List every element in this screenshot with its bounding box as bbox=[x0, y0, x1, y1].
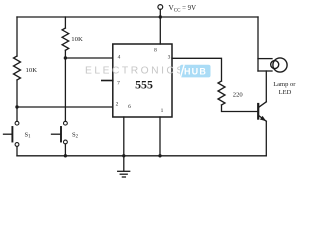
svg-text:ELECTRONICS: ELECTRONICS bbox=[85, 66, 186, 77]
svg-text:4: 4 bbox=[118, 55, 121, 61]
svg-text:LED: LED bbox=[279, 89, 292, 96]
svg-text:6: 6 bbox=[128, 104, 131, 110]
svg-text:3: 3 bbox=[168, 54, 171, 60]
svg-text:HUB: HUB bbox=[184, 66, 207, 76]
svg-text:10K: 10K bbox=[26, 67, 38, 74]
svg-text:Lamp or: Lamp or bbox=[273, 81, 296, 88]
svg-text:1: 1 bbox=[161, 108, 164, 114]
svg-text:10K: 10K bbox=[71, 36, 83, 43]
svg-text:8: 8 bbox=[154, 47, 157, 53]
svg-text:VCC = 9V: VCC = 9V bbox=[169, 3, 197, 13]
svg-text:2: 2 bbox=[116, 101, 119, 107]
svg-text:555: 555 bbox=[135, 78, 153, 92]
svg-text:7: 7 bbox=[117, 81, 120, 87]
svg-text:220: 220 bbox=[233, 91, 244, 98]
